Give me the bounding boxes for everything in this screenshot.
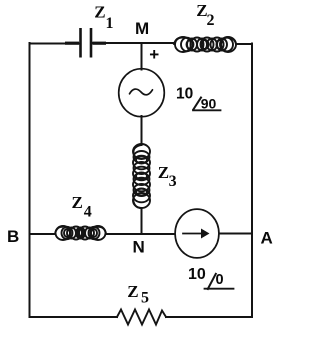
angle slash for 10/90 (193, 98, 201, 110)
label Z2 (196, 1, 214, 29)
node A label (261, 229, 273, 248)
wire top-left segment from corner to capacitor (30, 43, 80, 45)
wire right rail A side (right vertical) (251, 44, 253, 318)
wire source to inductor Z3 (141, 116, 143, 145)
wire inductor Z4 to node N (106, 233, 174, 235)
angle slash for 10/0 (208, 274, 216, 289)
svg-text:10: 10 (176, 86, 193, 103)
label 10 angle 90 (176, 86, 216, 112)
current source arrow (183, 229, 210, 239)
label Z5 (127, 282, 149, 307)
svg-text:1: 1 (106, 15, 114, 32)
label 10 angle 0 (188, 266, 224, 288)
node N label (133, 238, 145, 257)
inductor Z2 (top right coil) (174, 37, 236, 52)
inductor Z3 (middle vertical coil) (133, 144, 150, 208)
svg-text:0: 0 (216, 272, 224, 288)
wire top middle segment capacitor to inductor Z2 (91, 42, 174, 44)
label Z1 (94, 2, 113, 32)
underline for 10/90 (193, 109, 221, 111)
label Z3 (158, 163, 177, 190)
plus sign polarity (149, 45, 159, 64)
svg-text:+: + (149, 45, 159, 64)
wire left rail B side (left vertical) (29, 43, 31, 317)
svg-text:M: M (135, 19, 149, 38)
svg-text:A: A (261, 229, 273, 248)
svg-text:Z: Z (72, 193, 83, 212)
svg-text:90: 90 (201, 95, 217, 111)
svg-text:Z: Z (94, 2, 105, 21)
wire bottom right segment resistor to corner (166, 316, 252, 318)
node B label (7, 227, 19, 246)
label Z4 (72, 193, 92, 221)
ac voltage source V1 circle (119, 69, 165, 117)
svg-text:Z: Z (127, 282, 138, 301)
ac source sine symbol (130, 89, 153, 95)
inductor Z4 (left horizontal coil) (55, 226, 106, 240)
resistor Z5 (117, 310, 166, 325)
wire current source to node A (220, 233, 252, 235)
svg-text:4: 4 (84, 204, 92, 221)
wire B to inductor Z4 (30, 233, 56, 235)
svg-text:5: 5 (141, 290, 149, 307)
svg-text:10: 10 (188, 266, 206, 283)
svg-text:N: N (133, 238, 145, 257)
wire inductor Z3 to node N (141, 208, 143, 234)
wire top right segment inductor to corner (236, 43, 252, 45)
current source I1 circle (175, 209, 219, 258)
svg-text:3: 3 (169, 173, 177, 190)
underline for 10/0 (205, 288, 234, 290)
wire bottom left segment to resistor (30, 316, 118, 318)
svg-text:B: B (7, 227, 19, 246)
wire node M drop to source (141, 43, 143, 70)
svg-text:2: 2 (207, 12, 215, 29)
node M label (135, 19, 149, 38)
svg-text:Z: Z (158, 163, 169, 182)
capacitor Z1 (65, 28, 106, 58)
